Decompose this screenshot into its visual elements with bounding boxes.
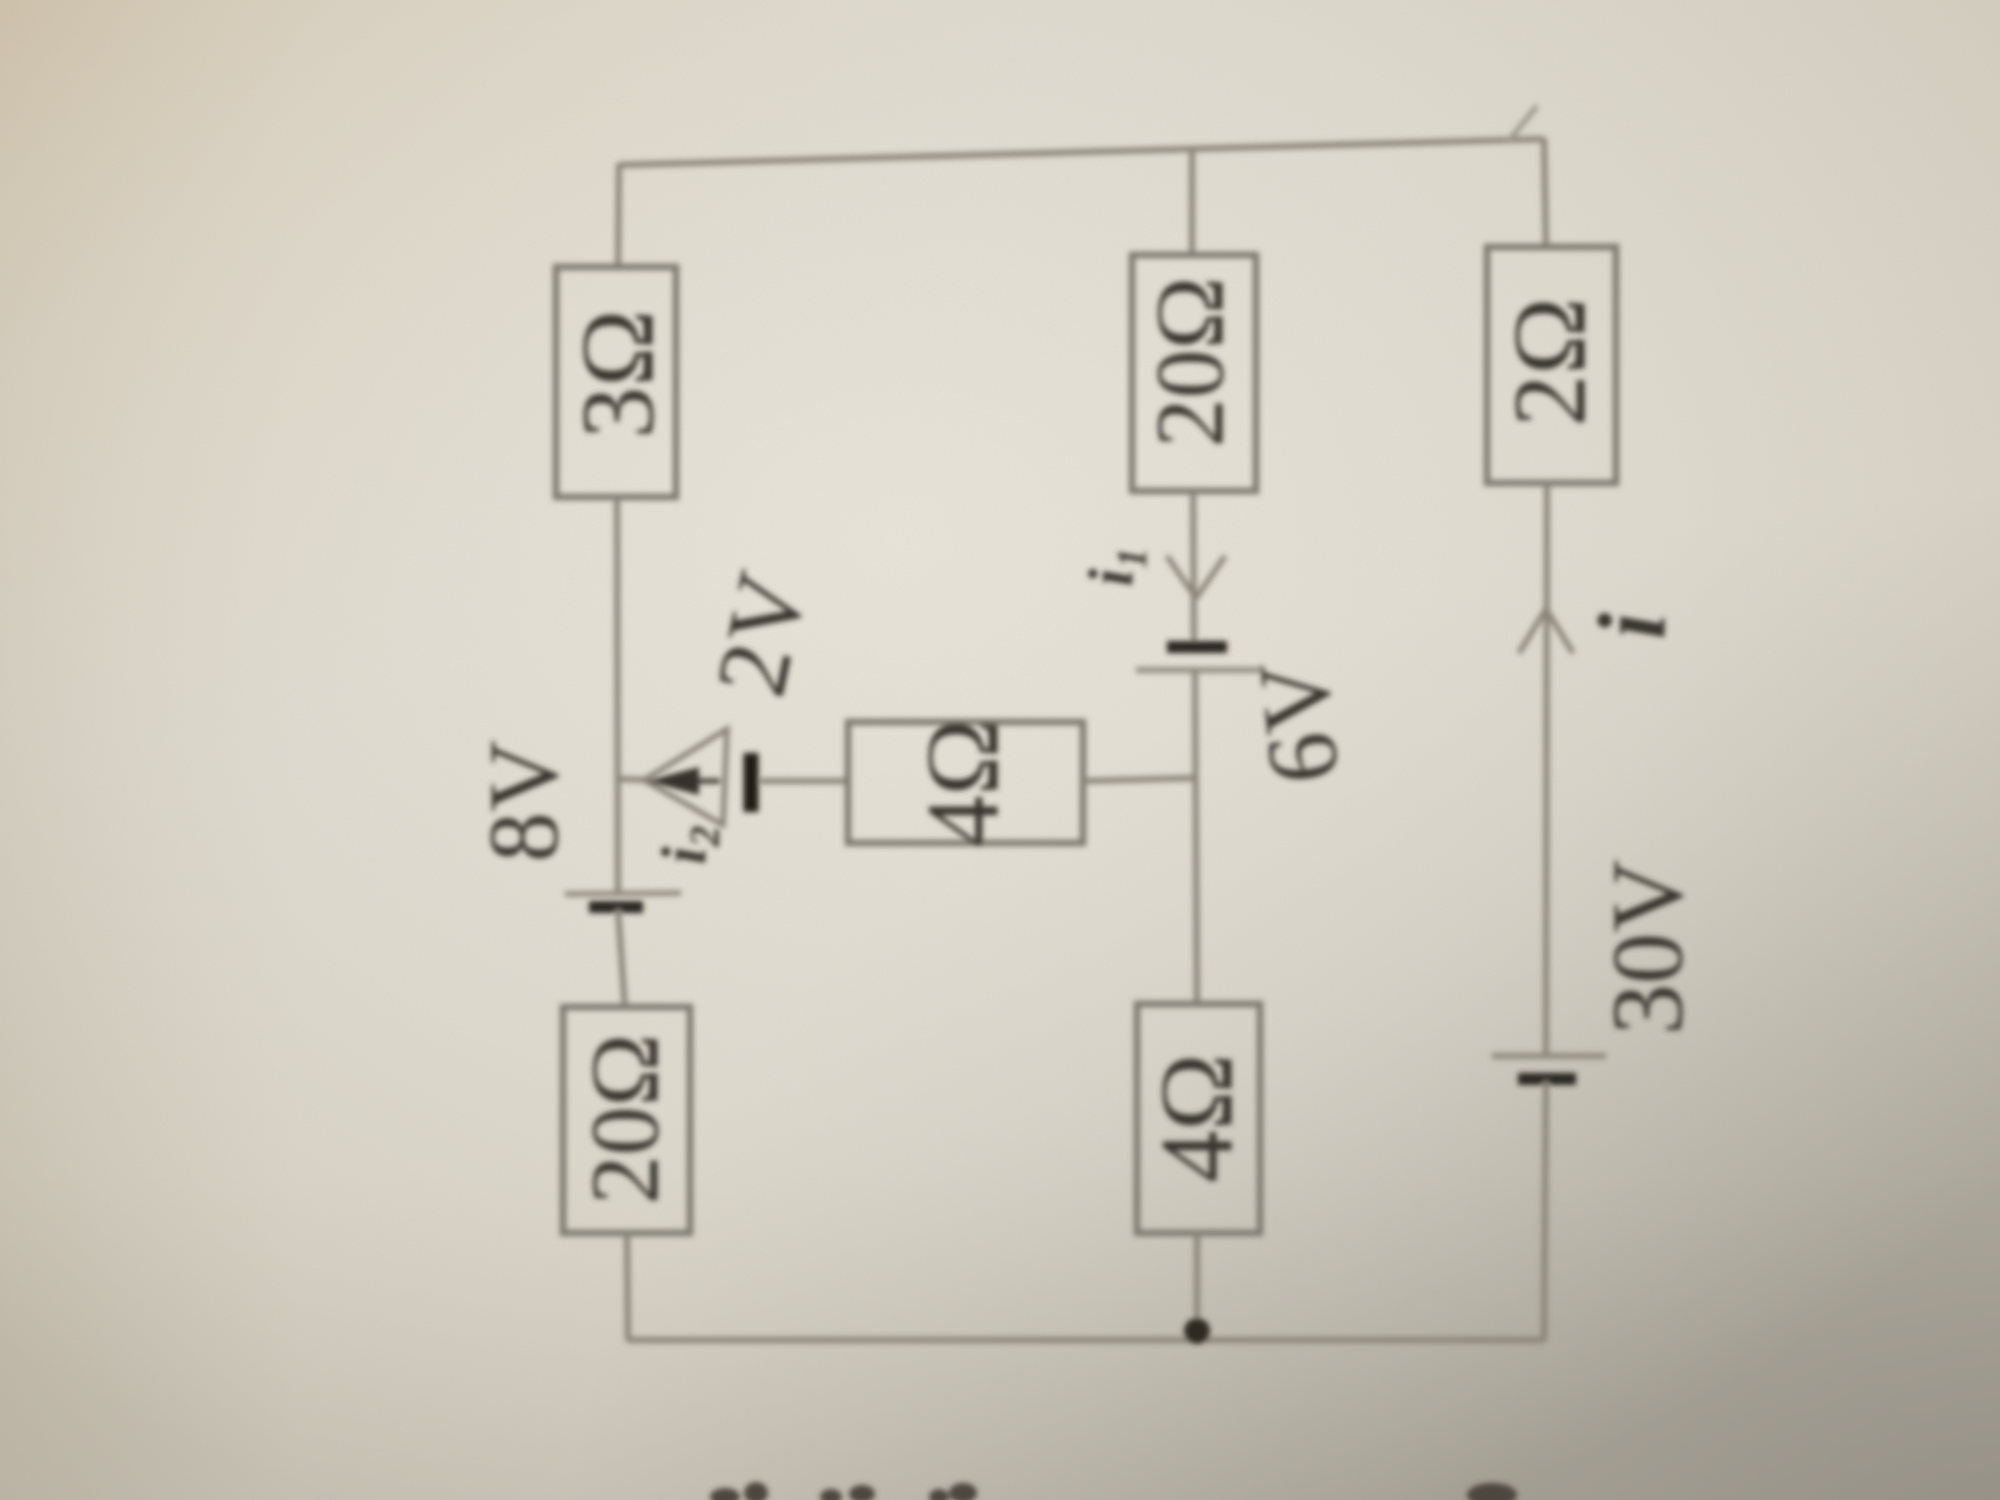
current arrow i1 [1167, 556, 1225, 598]
wire right vertical middle [1546, 483, 1547, 1055]
wire middle vertical lower [1195, 673, 1197, 1006]
wire middle vertical upper [1189, 150, 1195, 257]
wire middle horizontal right segment [1083, 778, 1196, 781]
current arrow i [1519, 609, 1573, 653]
svg-text:8V: 8V [468, 740, 579, 862]
wire right vertical lower [1544, 1081, 1546, 1341]
resistor R1 3Ω box [556, 267, 676, 497]
battery B1 8V short thick plate [589, 901, 643, 913]
resistor R3 20Ω box middle-top [1132, 255, 1256, 491]
wire middle vertical to battery [1193, 491, 1194, 645]
svg-text:4Ω: 4Ω [905, 718, 1020, 847]
wire corner hook top-right [1507, 106, 1537, 143]
wire middle horizontal to 4Ω [760, 778, 848, 784]
svg-text:20Ω: 20Ω [1136, 277, 1244, 448]
svg-text:30V: 30V [1592, 859, 1705, 1035]
svg-text:i2: i2 [648, 826, 729, 865]
battery B2 6V long plate [1136, 667, 1260, 673]
resistor R6 4Ω box horizontal [848, 722, 1083, 843]
svg-text:2V: 2V [695, 563, 829, 706]
svg-text:i: i [1579, 612, 1686, 639]
junction node dot [1184, 1318, 1210, 1344]
wire left vertical lower [618, 909, 625, 1009]
battery B2 6V short thick plate [1167, 641, 1227, 653]
svg-text:20Ω: 20Ω [571, 1034, 679, 1205]
wire bottom horizontal [628, 1337, 1544, 1343]
svg-text:i1: i1 [1075, 548, 1156, 587]
svg-text:2Ω: 2Ω [1492, 297, 1607, 426]
battery B1 8V long plate [565, 893, 681, 894]
svg-text:6V: 6V [1237, 655, 1360, 788]
current arrow i2 (filled arrowhead) [647, 767, 699, 795]
wire left vertical upper [618, 163, 619, 270]
wire left vertical middle [617, 497, 618, 896]
wire middle horizontal left segment [618, 779, 648, 780]
wire top horizontal [620, 139, 1544, 165]
resistor R4 4Ω box middle-bottom [1137, 1004, 1260, 1233]
resistor R5 2Ω box [1487, 247, 1616, 483]
resistor R2 20Ω box left-bottom [563, 1007, 690, 1233]
svg-text:3Ω: 3Ω [560, 309, 675, 438]
battery B3 30V short thick plate [1518, 1073, 1576, 1085]
battery B3 30V long plate [1492, 1053, 1606, 1059]
wire right vertical upper [1544, 138, 1546, 249]
svg-text:4Ω: 4Ω [1139, 1053, 1254, 1182]
diode D1 cathode bar [744, 753, 759, 812]
wire left bottom stub [627, 1233, 628, 1341]
wire middle bottom stub [1194, 1233, 1200, 1341]
cut-off text marks bottom edge [710, 1488, 740, 1500]
diode D1 triangle outline [644, 729, 727, 825]
